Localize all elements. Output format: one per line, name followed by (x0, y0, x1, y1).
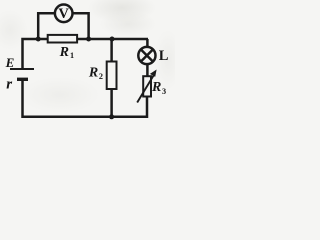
svg-text:R: R (59, 45, 69, 60)
svg-text:1: 1 (70, 51, 74, 60)
svg-text:V: V (58, 6, 69, 22)
svg-text:3: 3 (162, 87, 166, 96)
svg-text:r: r (6, 76, 12, 92)
svg-text:E: E (5, 55, 15, 70)
svg-text:R: R (151, 80, 161, 95)
svg-text:R: R (88, 65, 98, 80)
svg-text:L: L (159, 48, 169, 64)
svg-text:2: 2 (99, 72, 103, 81)
